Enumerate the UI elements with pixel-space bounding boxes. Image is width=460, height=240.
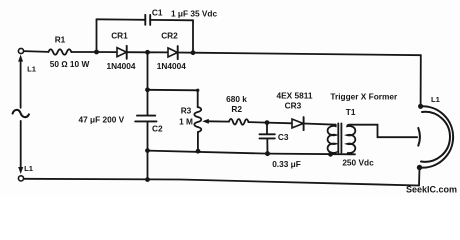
wire node D to R3 top: [148, 90, 198, 107]
node J junction primary bottom: [328, 152, 333, 157]
svg-text:SeekIC.com: SeekIC.com: [406, 185, 457, 195]
wire node E down to bottom rail: [147, 151, 149, 180]
svg-text:C3: C3: [278, 132, 289, 142]
svg-text:CR3: CR3: [285, 101, 302, 111]
wire CR2 to node C: [178, 52, 193, 54]
label C3: [278, 132, 289, 142]
node D junction: [145, 87, 150, 92]
R3 wiper arrow: [202, 119, 229, 124]
wire C1 loop left vertical: [96, 19, 98, 52]
wire node A to CR1: [97, 51, 118, 53]
label 1 uF 35 Vdc: [171, 9, 218, 19]
label C2: [152, 124, 163, 134]
label Trigger X Former: [330, 91, 398, 101]
svg-text:R2: R2: [231, 104, 242, 114]
label 0.33 uF: [272, 159, 301, 169]
svg-text:T1: T1: [346, 107, 356, 117]
label R3: [181, 106, 192, 116]
watermark SeekIC.com: [406, 185, 457, 195]
wire right lead lower: [418, 168, 421, 186]
potentiometer R3: [194, 107, 201, 151]
svg-text:47 μF 200 V: 47 μF 200 V: [79, 114, 125, 124]
svg-text:CR1: CR1: [111, 31, 128, 41]
transformer T1 primary winding: [328, 125, 336, 155]
label 1 M: [179, 117, 193, 127]
node G junction R3 bottom: [196, 149, 201, 154]
svg-text:L1: L1: [24, 164, 34, 173]
terminal L1 top: [18, 48, 23, 107]
label 250 Vdc: [342, 157, 374, 167]
label CR3: [285, 101, 302, 111]
svg-text:1 μF 35 Vdc: 1 μF 35 Vdc: [171, 9, 218, 19]
label 47 uF 200 V: [79, 114, 125, 124]
capacitor C1: [145, 15, 150, 25]
diode CR2: [168, 46, 178, 59]
wire right lead upper: [420, 55, 422, 106]
wire C2 branch upper: [147, 52, 149, 90]
svg-text:Trigger X Former: Trigger X Former: [330, 91, 398, 101]
label T1: [346, 107, 356, 117]
wire CR3 to T1 primary: [304, 124, 336, 125]
diode CR3: [292, 117, 304, 130]
svg-text:L1: L1: [27, 64, 37, 73]
node F junction on bottom rail: [145, 177, 150, 182]
wire C1 top rail left: [97, 18, 146, 21]
label L1 lamp: [431, 95, 441, 104]
node L lamp cathode: [417, 165, 422, 170]
resistor R2: [229, 119, 249, 125]
wire node H to CR3: [267, 122, 292, 125]
bottom rail: [24, 179, 419, 186]
node K lamp anode: [418, 104, 423, 109]
label CR1: [111, 31, 128, 41]
node E junction: [145, 148, 150, 153]
wire trigger from secondary to electrode: [351, 125, 418, 138]
svg-text:4EX 5811: 4EX 5811: [277, 91, 313, 101]
svg-text:50 Ω 10 W: 50 Ω 10 W: [50, 59, 90, 69]
node B junction: [145, 50, 150, 55]
transformer T1 secondary winding: [347, 125, 355, 155]
label CR2: [161, 31, 178, 41]
wire C3 bottom: [266, 138, 268, 153]
wire C2 bottom to node E: [147, 121, 149, 150]
svg-text:680 k: 680 k: [226, 94, 247, 104]
svg-text:250 Vdc: 250 Vdc: [342, 157, 374, 167]
capacitor C2: [135, 116, 156, 122]
trigger electrode bar: [418, 128, 420, 146]
node H junction: [265, 120, 270, 125]
flash tube L1 inner envelope: [421, 112, 450, 162]
svg-text:C2: C2: [152, 124, 163, 134]
svg-text:R1: R1: [55, 35, 66, 45]
corner dot R3 top: [196, 89, 199, 92]
transformer T1 core: [338, 123, 341, 152]
wire C1 top rail right: [150, 19, 193, 21]
svg-text:1N4004: 1N4004: [157, 61, 186, 71]
second line from node E to T1: [148, 151, 356, 155]
svg-text:CR2: CR2: [161, 31, 178, 41]
diode CR1: [117, 46, 127, 59]
svg-text:1N4004: 1N4004: [106, 61, 135, 71]
svg-text:1 M: 1 M: [179, 117, 193, 127]
wire R1 to node A: [71, 51, 96, 53]
label 680 k: [226, 94, 247, 104]
node A junction: [94, 50, 99, 55]
wire R2 to node H: [249, 121, 268, 124]
wire node B to CR2: [148, 51, 169, 53]
label 4EX 5811: [277, 91, 313, 101]
AC line break squiggle: [13, 110, 29, 117]
flash tube L1 outer envelope: [420, 106, 454, 167]
label L1 bottom: [24, 164, 34, 173]
wire left vertical lower: [20, 121, 22, 167]
label R2: [231, 104, 242, 114]
label 1N4004 second: [157, 61, 186, 71]
wire C3 branch top: [266, 123, 268, 134]
svg-text:C1: C1: [152, 7, 163, 17]
wire main line to right corner: [193, 53, 421, 56]
terminal L1 bottom: [18, 167, 23, 181]
node C junction: [191, 50, 196, 55]
capacitor C3: [260, 134, 275, 138]
wire node D to C2 top plate: [147, 90, 149, 116]
label C1: [152, 7, 163, 17]
label R1: [55, 35, 66, 45]
wire CR1 to node B: [127, 51, 148, 53]
wire top from L1 to R1: [24, 50, 49, 53]
node I junction C3 bottom: [265, 151, 270, 156]
label 50 ohm 10 W: [50, 59, 90, 69]
svg-text:L1: L1: [431, 95, 441, 104]
svg-text:0.33 μF: 0.33 μF: [272, 159, 301, 169]
label 1N4004 first: [106, 61, 135, 71]
label L1 top: [27, 64, 37, 73]
wire C1 loop right vertical: [192, 20, 194, 52]
resistor R1: [48, 49, 71, 54]
svg-text:R3: R3: [181, 106, 192, 116]
